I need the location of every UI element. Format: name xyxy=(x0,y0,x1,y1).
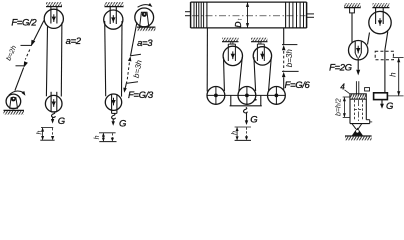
fixed pulley (diagram 2) xyxy=(104,10,123,29)
lower block frame xyxy=(230,95,262,105)
fixed pulley bracket (diagram 4) xyxy=(376,8,384,24)
lower block left pulley xyxy=(207,87,225,105)
svg-text:D: D xyxy=(233,22,243,28)
lift height dimension h (diagram 2) xyxy=(99,133,117,142)
rope fall 5 xyxy=(269,57,272,92)
ceiling mount hatch (diagram 1) xyxy=(46,2,62,6)
drum left shaft xyxy=(185,12,191,16)
rope anchor block (diagram 4) xyxy=(350,8,355,13)
ceiling mount hatch (diagram 2) xyxy=(105,2,124,6)
travel arrow (diagram 2) xyxy=(128,56,131,61)
svg-text:F=G/2: F=G/2 xyxy=(11,17,37,28)
movable pulley bracket (diagram 1) xyxy=(51,92,57,112)
rope between pulleys (diagram 4) xyxy=(368,33,370,45)
movable pulley bracket (diagram 2) xyxy=(112,94,117,113)
left fixed pulley bracket (diagram 3) xyxy=(228,42,235,61)
label F=G/6 xyxy=(285,80,311,91)
dimension ticks b=3h (diagram 2) xyxy=(127,54,141,83)
drum left rope coil xyxy=(194,2,207,28)
wall winch pulley (diagram 2) xyxy=(135,8,154,27)
label b=3h (diagram 2) xyxy=(132,59,144,79)
rope fall 3 xyxy=(239,57,242,91)
svg-text:F=G/3: F=G/3 xyxy=(128,90,154,101)
svg-text:G: G xyxy=(119,119,126,130)
load hook (diagram 2) xyxy=(112,113,116,119)
label G (diagram 2) xyxy=(119,119,126,130)
svg-text:b=3h: b=3h xyxy=(285,49,294,68)
rope fall 4 xyxy=(254,57,256,91)
lower block axle bar (diagram 3) xyxy=(207,94,285,96)
right ceiling mount hatch (diagram 3) xyxy=(251,38,268,42)
svg-text:G: G xyxy=(58,116,65,127)
left rope fall (diagram 1) xyxy=(46,27,47,97)
right rope fall (diagram 2) xyxy=(121,21,124,97)
label b=3h (diagram 3) xyxy=(285,49,294,68)
cylinder head cap (diagram 4) xyxy=(350,94,366,99)
movable pulley (diagram 1) xyxy=(45,95,62,112)
label a=3 xyxy=(137,38,153,49)
pull rope to winch (diagram 1) xyxy=(15,21,44,91)
rope fall 1 from drum xyxy=(206,28,208,92)
drum diameter dimension D xyxy=(246,2,249,27)
lift height dimension h (diagram 1) xyxy=(40,127,54,140)
drum right shaft xyxy=(307,14,314,17)
lower block right pulley xyxy=(268,87,286,105)
svg-text:b=h/2: b=h/2 xyxy=(336,98,343,116)
raised position dashed box (diagram 4) xyxy=(375,51,393,60)
label G (diagram 1) xyxy=(58,116,65,127)
label h (diagram 2) xyxy=(94,135,101,139)
left rope fall (diagram 2) xyxy=(105,21,106,96)
travel arrow b (diagram 1) xyxy=(24,61,28,67)
travel arrows b=3h (diagram 3) xyxy=(282,45,286,77)
svg-text:h: h xyxy=(94,135,101,139)
rope fall 6 to drum with F xyxy=(283,28,285,90)
label F=G/3 xyxy=(128,90,154,101)
label b=h/2 xyxy=(336,98,343,116)
fixed pulley (diagram 1) xyxy=(44,9,63,28)
label F=G/2 xyxy=(11,17,37,28)
label h (diagram 3) xyxy=(232,131,239,135)
svg-text:F=2G: F=2G xyxy=(329,63,352,74)
svg-text:h: h xyxy=(388,72,397,77)
label G (diagram 3) xyxy=(250,115,257,126)
weight arrow G (diagram 3) xyxy=(245,113,248,126)
svg-text:G: G xyxy=(250,115,257,126)
label a=2 xyxy=(66,36,82,47)
load hook (diagram 1) xyxy=(52,112,56,118)
lower block middle pulley xyxy=(238,87,256,105)
svg-text:a=2: a=2 xyxy=(66,36,82,47)
label D xyxy=(233,18,244,28)
movable pulley (diagram 4) xyxy=(349,41,368,60)
svg-text:G: G xyxy=(386,101,393,112)
drum right rope coil xyxy=(286,2,304,28)
rope fall 2 xyxy=(223,57,226,91)
ground hatch (diagram 4) xyxy=(345,136,372,140)
wall platform hatch (diagram 2) xyxy=(137,27,155,31)
cylinder funnel base (diagram 4) xyxy=(352,124,362,129)
label 4 xyxy=(340,82,349,93)
fixed pulley bracket (diagram 1) xyxy=(51,7,57,24)
weight arrow G (diagram 1) xyxy=(51,117,54,124)
piston inside cylinder (dashed) xyxy=(355,100,363,123)
wall winch rotation arrow (diagram 2) xyxy=(138,3,153,7)
lift height dimension h (diagram 3) xyxy=(235,127,251,140)
ground winch pulley (diagram 1) xyxy=(6,94,21,109)
load hook (diagram 3) xyxy=(244,107,248,113)
label G (diagram 4) xyxy=(386,101,393,112)
weight arrow G (diagram 4) xyxy=(380,99,384,108)
movable pulley bracket (diagram 4) xyxy=(355,41,361,58)
weight block (diagram 4) xyxy=(374,93,388,100)
pivot support (diagram 4) xyxy=(352,128,363,136)
right fixed pulley bracket (diagram 3) xyxy=(257,42,264,61)
rope to weight (diagram 4) xyxy=(385,32,388,93)
fixed pulley bracket (diagram 2) xyxy=(110,7,116,24)
piston rod (diagram 4) xyxy=(356,81,358,94)
stroke dimension b=h/2 xyxy=(343,97,351,117)
left fixed pulley (diagram 3) xyxy=(223,46,242,65)
label h (diagram 4) xyxy=(388,72,397,77)
left ceiling mount hatch (diagram 3) xyxy=(222,38,239,42)
ground winch rotation arrow (diagram 1) xyxy=(9,91,26,96)
force arrow F (diagram 1) xyxy=(31,40,35,47)
latch notch (diagram 4) xyxy=(365,88,370,91)
cylinder body (diagram 4) xyxy=(350,99,372,123)
fixed pulley (diagram 4) xyxy=(369,11,391,33)
right ceiling mount hatch (diagram 4) xyxy=(372,3,389,7)
weight arrow G (diagram 2) xyxy=(112,118,115,126)
dimension ticks b=3h (diagram 3) xyxy=(282,45,299,72)
label b=2h xyxy=(6,45,19,62)
pull rod with force arrow (diagram 4) xyxy=(356,58,360,76)
left ceiling mount hatch (diagram 4) xyxy=(344,3,361,7)
cable drum body (diagram 3) xyxy=(191,2,307,28)
movable pulley (diagram 2) xyxy=(105,94,121,110)
lift height dimension h (diagram 4) xyxy=(387,58,404,96)
ground hatch (diagram 1) xyxy=(4,110,25,114)
pull rope from winch (diagram 2) xyxy=(125,22,137,90)
drum axis centerline xyxy=(192,15,306,17)
right fixed pulley (diagram 3) xyxy=(253,47,271,65)
label F=2G xyxy=(329,63,352,74)
anchored rope fall (diagram 4) xyxy=(351,13,353,43)
label h (diagram 1) xyxy=(36,131,43,135)
right rope fall (diagram 1) xyxy=(60,23,63,97)
force arrow F (diagram 2) xyxy=(123,88,127,93)
dimension ticks b=2h xyxy=(16,45,32,65)
svg-text:F=G/6: F=G/6 xyxy=(285,80,311,91)
svg-text:h: h xyxy=(36,131,43,135)
svg-text:h: h xyxy=(232,131,239,135)
svg-text:a=3: a=3 xyxy=(137,38,153,49)
